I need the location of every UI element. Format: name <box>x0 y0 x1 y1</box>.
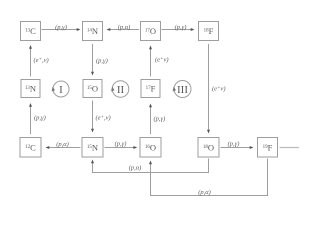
box 16O <box>140 138 161 158</box>
arrow line 13N->13C <box>30 49 32 77</box>
box 13N <box>21 80 40 98</box>
box 19F <box>258 138 278 158</box>
svg-text:I: I <box>59 84 63 96</box>
svg-text:III: III <box>177 84 188 96</box>
svg-text:(p,γ): (p,γ) <box>115 141 127 148</box>
svg-text:(p,α): (p,α) <box>118 24 131 31</box>
box 17F <box>141 80 160 98</box>
arrow line 13C->14N <box>42 29 79 31</box>
cycle III rotation tick <box>173 87 176 92</box>
arrowhead into 15O (down) <box>91 72 94 76</box>
cycle circle II <box>112 81 129 98</box>
svg-text:(p,α): (p,α) <box>198 189 211 196</box>
box 18O <box>198 138 219 158</box>
box 18F <box>199 22 219 41</box>
arrowhead into 18O (down) <box>207 130 210 134</box>
box 15O <box>83 80 102 98</box>
svg-text:(p,γ): (p,γ) <box>228 141 240 148</box>
arrowhead into 16O (right) <box>133 146 137 149</box>
arrow line 14N->15O <box>92 44 94 72</box>
arrowhead into 16O from below (up) <box>149 161 152 165</box>
arrow line 15O->15N <box>92 101 94 130</box>
arrow line 17F->17O <box>150 49 152 77</box>
line 19F continuation right <box>280 147 300 149</box>
arrowhead into 12C (left) <box>46 146 50 149</box>
box 15N <box>82 138 103 158</box>
arrow line 12C->13N <box>30 107 32 135</box>
arrow line 15N->16O <box>105 147 135 149</box>
cycle I rotation tick <box>52 87 55 92</box>
svg-text:(p,γ): (p,γ) <box>154 116 166 123</box>
arrow line 15N->12C <box>49 147 81 149</box>
arrowhead into 17F (up) <box>149 104 152 108</box>
arrow line 17O->18F <box>162 29 193 31</box>
arrowhead into 13C (up) <box>29 45 32 49</box>
svg-text:(p,γ): (p,γ) <box>55 24 67 31</box>
arrowhead into 15N from below (up) <box>91 160 94 164</box>
arrow line 18F->18O <box>208 44 210 130</box>
box 13C <box>21 22 41 41</box>
svg-text:(p,γ): (p,γ) <box>96 58 108 65</box>
svg-text:(p,α): (p,α) <box>56 141 69 148</box>
svg-text:(p,γ): (p,γ) <box>175 24 187 31</box>
box 14N <box>83 22 103 41</box>
return path 19F->16O <box>151 159 268 196</box>
arrowhead into 14N from left <box>77 28 81 31</box>
arrow line 17O->14N <box>109 29 140 31</box>
return path 18O->15N <box>93 159 209 173</box>
box 12C <box>20 138 41 158</box>
arrow line 16O->17F <box>150 107 152 134</box>
arrow line 18O->19F <box>221 147 251 149</box>
cycle circle I <box>53 81 69 97</box>
svg-text:II: II <box>117 84 125 96</box>
svg-text:(p,γ): (p,γ) <box>34 115 46 122</box>
svg-text:(p,α): (p,α) <box>129 165 142 172</box>
box 17O <box>141 22 161 41</box>
arrowhead into 19F (right) <box>250 146 254 149</box>
svg-text:(e+,ν): (e+,ν) <box>34 57 49 64</box>
arrowhead into 17O (up) <box>149 46 152 50</box>
arrowhead into 18F <box>191 28 195 31</box>
arrowhead into 14N from right <box>107 28 111 31</box>
cycle II rotation tick <box>111 87 114 92</box>
arrowhead into 13N (up) <box>29 103 32 107</box>
svg-text:(e+,ν): (e+,ν) <box>96 115 111 122</box>
arrowhead into 15N (down) <box>91 129 94 133</box>
cycle circle III <box>174 81 191 98</box>
